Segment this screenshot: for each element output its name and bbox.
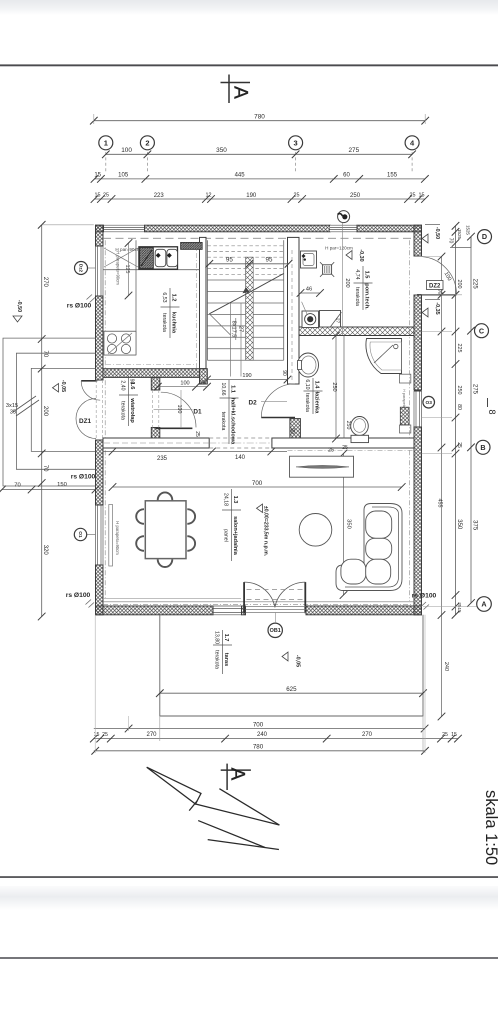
wall seg <box>200 237 207 368</box>
svg-text:OB1: OB1 <box>270 628 281 634</box>
rs break tick <box>86 600 92 605</box>
wall seg <box>145 225 331 232</box>
grid circle 4 <box>405 136 419 150</box>
svg-text:780: 780 <box>254 114 265 121</box>
svg-text:90: 90 <box>281 370 287 376</box>
wall seg <box>414 295 422 390</box>
grid circle B <box>476 440 490 454</box>
svg-text:salon+jadalnia: salon+jadalnia <box>232 516 238 556</box>
wall band <box>299 327 414 336</box>
svg-text:2: 2 <box>145 139 149 148</box>
dim 350 vertical inside living <box>343 454 345 596</box>
svg-text:105: 105 <box>118 173 129 179</box>
opening dashes between hall and living <box>209 437 272 439</box>
door D1 swing arc <box>161 392 196 427</box>
svg-text:780: 780 <box>253 744 264 751</box>
svg-text:25: 25 <box>410 193 416 199</box>
boiler unit next to washer <box>320 311 341 328</box>
wall seg <box>414 427 422 615</box>
svg-text:25: 25 <box>294 193 300 199</box>
svg-text:-0,50: -0,50 <box>434 227 440 239</box>
toilet <box>351 417 369 436</box>
dimension line dims 223/190/250 <box>95 198 426 200</box>
washbasin <box>298 353 319 377</box>
OB1 label <box>268 623 282 637</box>
OB1 opening dashes <box>247 589 304 591</box>
O3 sill blocks <box>400 374 411 383</box>
svg-text:95: 95 <box>266 257 273 264</box>
D2 leader line <box>261 401 287 403</box>
door D1 leaf <box>155 427 192 429</box>
dimension line grid dims 100/350/275 <box>106 153 412 155</box>
fridge X mark top-left <box>104 248 138 267</box>
door DZ1 top leaf <box>81 380 97 382</box>
svg-text:200: 200 <box>344 278 350 287</box>
svg-text:wiatrołap: wiatrołap <box>129 397 135 423</box>
kitchen sink unit border <box>139 247 178 269</box>
door D2 leaf <box>261 417 295 419</box>
chimney duct hatch <box>400 407 409 425</box>
svg-text:24,18: 24,18 <box>222 493 228 506</box>
wall seg <box>306 606 422 615</box>
dims 235/140 <box>103 451 287 453</box>
interior finish lines <box>103 237 414 239</box>
wall seg <box>288 237 300 384</box>
wall stub hatch <box>200 369 208 384</box>
svg-text:skala 1:50: skala 1:50 <box>482 790 498 865</box>
wall seg <box>96 565 104 615</box>
svg-text:O1: O1 <box>77 531 83 538</box>
svg-text:taras: taras <box>223 653 229 666</box>
svg-text:225: 225 <box>471 279 477 290</box>
svg-text:240: 240 <box>257 732 268 738</box>
svg-text:H par=120cm: H par=120cm <box>325 245 353 250</box>
svg-text:27: 27 <box>238 326 244 332</box>
svg-text:25: 25 <box>102 732 108 738</box>
living room window in left wall <box>96 505 104 565</box>
svg-text:rs Ø100: rs Ø100 <box>71 474 96 481</box>
svg-text:panel: panel <box>222 529 228 542</box>
svg-text:1.2: 1.2 <box>170 294 176 302</box>
svg-text:4,74: 4,74 <box>354 269 360 279</box>
top grey gradient band <box>0 0 498 15</box>
door OB1 arc right <box>275 582 305 607</box>
svg-text:270: 270 <box>42 277 48 288</box>
north arrow <box>147 767 280 849</box>
svg-text:rs Ø100: rs Ø100 <box>67 303 92 310</box>
dimension line dims 95/95 <box>209 263 288 265</box>
svg-text:225: 225 <box>456 344 462 353</box>
dimension line bottom dims <box>94 738 458 740</box>
leader to wall <box>88 267 96 269</box>
OB1 threshold lines <box>246 606 306 608</box>
wall stub below D2 <box>290 419 301 444</box>
svg-text:250: 250 <box>350 193 361 199</box>
grid circle 1 <box>99 136 113 150</box>
wall seg <box>272 438 414 448</box>
svg-text:1.3: 1.3 <box>232 496 238 504</box>
dim 780 bottom <box>91 747 99 755</box>
svg-text:15: 15 <box>419 193 425 199</box>
svg-text:350: 350 <box>346 519 352 529</box>
svg-text:1: 1 <box>104 139 108 148</box>
svg-text:H parapetu: H parapetu <box>402 389 406 408</box>
svg-text:240: 240 <box>443 662 449 671</box>
dining table <box>145 501 186 559</box>
dimension line dims 15/105/445/60/155 <box>95 178 425 180</box>
svg-text:275: 275 <box>471 384 477 395</box>
svg-text:-0,05: -0,05 <box>60 380 66 392</box>
grid circle 2 <box>140 136 154 150</box>
right dim vertical line 1 <box>441 257 443 717</box>
room label 1.5 pom.tech. <box>362 266 364 310</box>
vent window in top wall <box>330 225 357 232</box>
wall seg <box>96 225 104 246</box>
svg-text:275: 275 <box>349 147 360 154</box>
section mark 8 right <box>487 398 489 407</box>
kitchen window in left wall <box>96 246 104 296</box>
svg-text:D: D <box>482 232 487 241</box>
DZ1 opening wall dashes <box>95 380 97 440</box>
top horizontal rule <box>0 64 498 66</box>
svg-text:3: 3 <box>294 139 298 148</box>
svg-text:35: 35 <box>10 410 16 416</box>
window in bottom wall <box>213 606 242 615</box>
circle O3 <box>423 396 435 408</box>
kitchen counter outline <box>135 240 137 355</box>
sink taps <box>156 253 161 258</box>
extension ties right <box>422 256 442 258</box>
svg-text:70: 70 <box>14 483 20 489</box>
svg-text:445: 445 <box>235 173 246 179</box>
svg-text:223: 223 <box>154 193 165 199</box>
circle Dz2 <box>75 262 88 275</box>
svg-text:155: 155 <box>387 173 398 179</box>
door OB1 left leaf <box>243 582 245 613</box>
svg-text:455: 455 <box>437 499 443 508</box>
svg-text:1.1: 1.1 <box>229 385 235 393</box>
door DZ2 leaf <box>417 294 457 296</box>
svg-text:łazienka: łazienka <box>313 392 319 415</box>
grid circle A <box>477 597 492 612</box>
porch step inner rect <box>31 368 95 451</box>
bottom horizontal rule (page edge) <box>0 876 498 878</box>
grid circle 3 <box>289 136 303 150</box>
svg-text:1.5: 1.5 <box>363 271 369 279</box>
svg-text:250: 250 <box>345 421 351 430</box>
washing machine <box>302 311 319 328</box>
svg-text:O3: O3 <box>425 400 432 406</box>
svg-text:90: 90 <box>289 428 295 434</box>
svg-text:-0,30: -0,30 <box>358 249 364 261</box>
svg-text:350: 350 <box>456 519 462 530</box>
wall seg <box>96 440 104 505</box>
svg-text:140: 140 <box>235 455 246 461</box>
svg-text:95: 95 <box>226 257 233 264</box>
window in top wall (kitchen) <box>104 225 145 232</box>
svg-text:200: 200 <box>42 406 48 417</box>
level marker 0,00 <box>257 504 263 513</box>
stair side lines <box>206 240 208 360</box>
dims 100/25 above D1 <box>158 386 207 388</box>
circle O1 <box>74 528 86 540</box>
svg-text:DZ2: DZ2 <box>429 284 441 290</box>
roof drain circle symbol top <box>338 211 350 223</box>
room label 1.3 salon <box>231 489 233 561</box>
svg-text:320: 320 <box>42 545 48 556</box>
wall seg <box>103 369 200 378</box>
level marker -0,50 right <box>422 234 428 243</box>
floor drain symbol <box>323 265 332 274</box>
shower cabin <box>366 339 402 374</box>
svg-text:100: 100 <box>180 381 189 387</box>
svg-text:375: 375 <box>471 520 477 531</box>
level marker -0,50 left <box>13 316 22 322</box>
svg-text:46: 46 <box>306 286 312 292</box>
svg-text:pom.tech.: pom.tech. <box>363 283 369 310</box>
wall seg <box>103 438 209 448</box>
stair treads <box>207 245 283 247</box>
svg-text:DZ1: DZ1 <box>79 418 92 425</box>
svg-text:100: 100 <box>176 405 182 414</box>
svg-text:-0,35: -0,35 <box>434 302 440 314</box>
wall seg <box>96 296 104 380</box>
svg-text:25: 25 <box>456 442 462 448</box>
svg-text:190: 190 <box>242 373 251 379</box>
wall stub below D1 <box>151 428 160 444</box>
svg-text:H parapetu=90cm: H parapetu=90cm <box>116 251 121 285</box>
svg-text:terakota: terakota <box>220 412 226 431</box>
dimension line dims 70/150 <box>2 489 96 491</box>
wall seg <box>357 225 422 232</box>
svg-text:12: 12 <box>206 193 212 199</box>
svg-text:25: 25 <box>442 732 448 738</box>
svg-text:2515: 2515 <box>457 602 462 613</box>
extension lines top <box>93 114 95 124</box>
svg-text:Dz2: Dz2 <box>78 264 83 273</box>
level marker -0,30 <box>346 251 352 260</box>
dim 700 bottom <box>125 725 133 733</box>
svg-text:700: 700 <box>253 721 264 728</box>
svg-text:terakota: terakota <box>213 650 219 669</box>
svg-text:6,53: 6,53 <box>161 292 167 302</box>
grid circle C <box>475 324 489 338</box>
dimension line right grid dims <box>470 237 472 603</box>
room label 1.6 wiatrolap <box>128 376 130 426</box>
dim 250 second <box>343 336 345 439</box>
leader O1 to wall <box>87 534 96 536</box>
sideboard <box>290 456 354 477</box>
svg-text:6,10: 6,10 <box>304 379 310 389</box>
svg-text:rs Ø100: rs Ø100 <box>412 593 437 600</box>
svg-text:terakota: terakota <box>161 313 167 332</box>
svg-text:235: 235 <box>157 456 168 462</box>
svg-text:15: 15 <box>94 732 100 738</box>
svg-text:625: 625 <box>286 686 297 693</box>
stair break diagonal with arrow <box>209 292 250 314</box>
level marker -0,35 right <box>422 308 428 317</box>
bottom grey gradient band <box>0 886 498 910</box>
door D2 swing arc <box>261 384 295 418</box>
svg-text:70: 70 <box>42 465 48 472</box>
svg-text:hall+kl.schodowa: hall+kl.schodowa <box>229 398 235 445</box>
wall stub above D1 <box>151 377 160 390</box>
svg-text:98: 98 <box>129 379 135 385</box>
svg-text:150: 150 <box>57 482 67 488</box>
room label 1.1 hall <box>228 380 230 444</box>
svg-text:25: 25 <box>103 193 109 199</box>
svg-text:60: 60 <box>343 173 350 179</box>
svg-text:D2: D2 <box>249 400 258 407</box>
rs break tick <box>421 602 427 607</box>
level marker -0,05 terrace <box>282 652 288 661</box>
terrace outline <box>160 615 423 716</box>
svg-text:8: 8 <box>487 409 497 414</box>
svg-text:1525: 1525 <box>457 229 462 240</box>
door OB1 arc left <box>244 582 275 607</box>
svg-text:D1: D1 <box>193 409 202 416</box>
svg-text:10,66: 10,66 <box>220 383 226 396</box>
svg-text:-0,05: -0,05 <box>295 655 301 667</box>
svg-text:25: 25 <box>342 445 348 451</box>
svg-text:27: 27 <box>335 318 341 324</box>
dimension line right dims mid <box>455 226 457 615</box>
svg-text:15: 15 <box>95 193 101 199</box>
vertical window dim 125 <box>128 243 130 296</box>
svg-text:270: 270 <box>362 732 373 738</box>
dimension line 780 overall top <box>94 120 425 122</box>
D1 leader line <box>154 408 193 410</box>
plant circle <box>299 514 332 547</box>
svg-text:250: 250 <box>456 386 462 395</box>
dimension line dim 700 living <box>113 486 402 488</box>
stove with 4 burners <box>104 331 136 355</box>
svg-text:25: 25 <box>328 448 334 454</box>
wall seg <box>96 225 104 232</box>
grid circle D <box>478 230 492 244</box>
svg-text:B: B <box>480 443 485 452</box>
level marker -0,05 porch <box>53 384 59 393</box>
door DZ2 swing arc <box>422 257 457 295</box>
pomtech sink <box>301 251 317 268</box>
svg-text:70: 70 <box>42 350 48 357</box>
svg-text:3x15: 3x15 <box>6 403 18 409</box>
step cut diagonal <box>13 396 36 412</box>
window sill projection <box>109 505 113 567</box>
sofa <box>336 504 402 591</box>
dim 250 rotated <box>335 336 337 439</box>
svg-text:200: 200 <box>456 280 462 289</box>
section mark A bottom: cross <box>226 764 228 790</box>
wall seg <box>414 225 422 256</box>
extension lines bottom <box>159 716 161 741</box>
section mark A top: cross <box>228 75 230 104</box>
svg-text:15: 15 <box>451 732 457 738</box>
chairs around table (horseshoe arcs) <box>158 492 173 500</box>
svg-text:A: A <box>481 600 486 609</box>
svg-text:±0,00=233,5m n.p.m.: ±0,00=233,5m n.p.m. <box>263 506 269 557</box>
svg-text:A: A <box>230 86 251 99</box>
svg-text:C: C <box>479 326 484 335</box>
svg-text:125: 125 <box>124 265 130 274</box>
stair walk line vertical <box>230 303 232 377</box>
svg-text:H parapetu=90cm: H parapetu=90cm <box>115 521 120 555</box>
room label 1.7 taras <box>222 630 224 674</box>
door DZ1 arc lower (semicircle) <box>76 399 96 439</box>
hob/pier hatch right of sink <box>181 242 203 249</box>
grid extension dashes <box>105 152 107 172</box>
porch step outer rect <box>3 338 96 486</box>
svg-text:A: A <box>227 768 248 781</box>
svg-text:2,40: 2,40 <box>119 380 125 390</box>
D1 opening wall dashes <box>152 390 154 428</box>
svg-text:1525: 1525 <box>466 225 471 235</box>
kitchen inner dash-dot <box>196 243 198 368</box>
svg-text:25: 25 <box>194 431 200 437</box>
window O3 in right wall <box>414 391 422 427</box>
kitchen sink basins <box>155 249 166 266</box>
room label 1.2 kuchnia <box>169 288 171 338</box>
svg-text:350: 350 <box>216 147 227 154</box>
svg-text:190: 190 <box>246 193 257 199</box>
door OB1 right leaf <box>304 582 306 613</box>
porch step middle rect <box>16 353 95 469</box>
svg-text:250: 250 <box>331 382 337 391</box>
svg-text:terakota: terakota <box>354 287 360 306</box>
dim 190 <box>207 379 288 381</box>
second bottom rule <box>0 957 498 959</box>
wall seg <box>96 606 214 615</box>
svg-text:kuchnia: kuchnia <box>170 312 176 334</box>
dimension line dim 625 <box>160 692 423 694</box>
svg-text:80: 80 <box>456 404 462 410</box>
door DZ1 arc upper <box>81 381 100 400</box>
svg-text:15: 15 <box>94 173 101 179</box>
DZ2 label box <box>427 281 444 290</box>
rs break tick <box>87 295 93 300</box>
svg-text:700: 700 <box>252 480 263 487</box>
svg-text:270: 270 <box>146 732 157 738</box>
dim 46 <box>301 292 321 294</box>
room label 1.4 lazienka <box>312 378 314 414</box>
svg-text:terakota: terakota <box>119 401 125 420</box>
svg-text:1.4: 1.4 <box>313 381 319 390</box>
svg-text:terakota: terakota <box>304 393 310 412</box>
svg-text:rs Ø100: rs Ø100 <box>66 592 91 599</box>
svg-text:100: 100 <box>121 147 132 154</box>
dimension line left dims <box>41 225 43 617</box>
svg-text:-0,50: -0,50 <box>16 300 22 312</box>
svg-text:13,80: 13,80 <box>213 631 219 644</box>
wall seg <box>242 606 246 615</box>
kitchen sink drainer (hatched) <box>140 248 154 269</box>
D1 opening dim 100 <box>180 390 182 428</box>
svg-text:70: 70 <box>448 238 454 244</box>
svg-text:1.7: 1.7 <box>223 634 229 642</box>
svg-text:25: 25 <box>199 381 205 387</box>
stair central stringer hatched <box>246 257 254 360</box>
